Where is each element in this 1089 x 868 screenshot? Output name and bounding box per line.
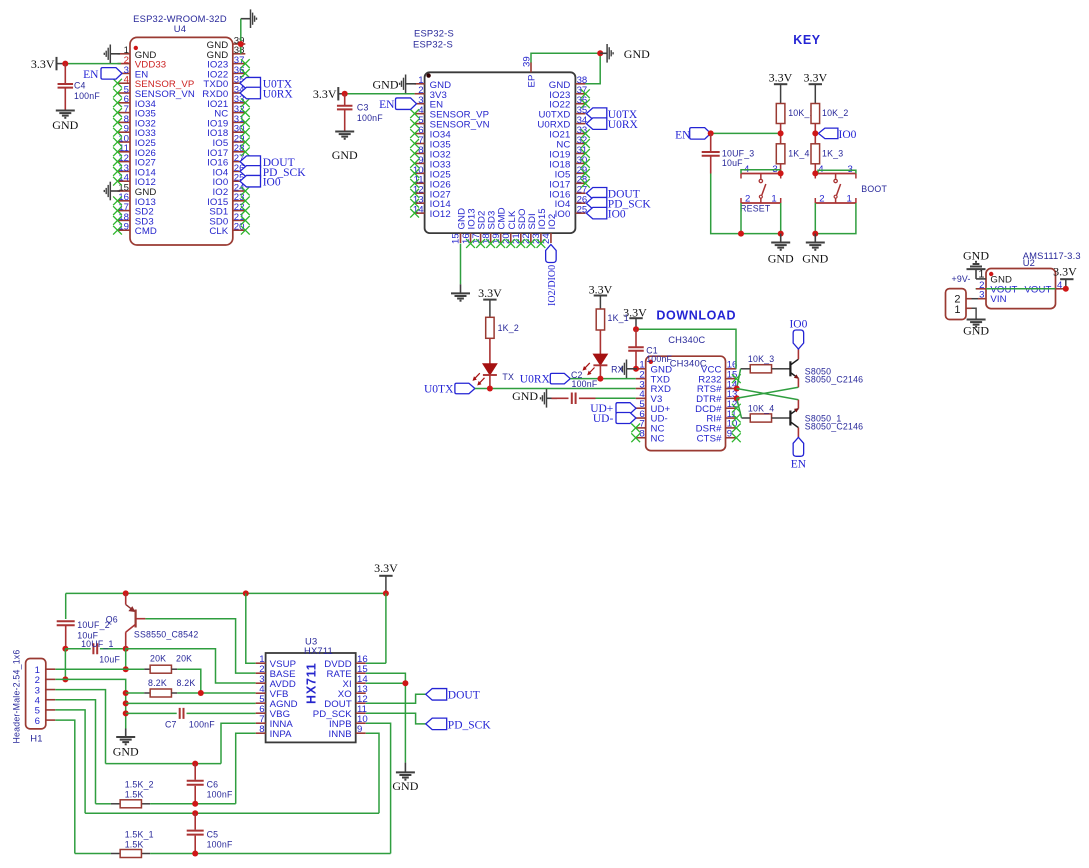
- junction RX LED: [597, 376, 603, 382]
- junction at U4 pin39: [238, 41, 244, 47]
- wire DOUT pin12 to flag: [366, 694, 426, 703]
- svg-text:GND: GND: [624, 47, 650, 61]
- resistor 1K_3: [811, 144, 843, 164]
- wire 3.3V to CH340C VCC pin16: [636, 329, 736, 369]
- svg-text:VOUT: VOUT: [1024, 284, 1051, 295]
- wire H1 pin1 to AVDD node: [55, 668, 125, 670]
- junction DTR#: [734, 395, 740, 401]
- capacitor C5 100nF: [187, 813, 233, 853]
- wire BOOT pin2 to GND: [814, 203, 816, 234]
- wire VSUP from rail to HX711 pin1: [246, 593, 256, 663]
- wire ESP32-S EP pin39 to GND tap: [531, 53, 600, 62]
- ground below left column: [113, 729, 139, 759]
- wire INPA pin8 to row B: [236, 733, 256, 804]
- net flag UD+ at CH340C pin5: [590, 403, 636, 416]
- net flag PD_SCK: [426, 718, 492, 731]
- wire VOUT net through U2: [976, 288, 1066, 290]
- LED RX: [583, 330, 624, 375]
- svg-text:20K: 20K: [150, 654, 166, 664]
- junction 10K_2/1K_3 node: [812, 130, 818, 136]
- resistor 10K_4: [742, 403, 782, 422]
- junction BOOT pin4: [812, 170, 818, 176]
- connector H1 Header-Male-2.54_1x6: [12, 650, 56, 744]
- wire H1 pin6 to 1.5K_1: [55, 720, 75, 853]
- capacitor C2 100nF: [552, 393, 596, 405]
- svg-text:3.3V: 3.3V: [803, 70, 827, 84]
- junction rail at VSUP: [243, 590, 249, 596]
- resistor 1K_2: [486, 317, 519, 338]
- net flag IO0 in KEY: [818, 128, 856, 141]
- net flag IO2/DIO0 at ESP32-S pin24: [546, 245, 558, 307]
- net flag U0RX at U4 pin34: [240, 87, 293, 100]
- resistor 10K_2: [811, 104, 848, 124]
- ground below C3: [332, 132, 358, 163]
- svg-text:EN: EN: [379, 99, 395, 111]
- svg-text:GND: GND: [392, 779, 418, 793]
- svg-text:CTS#: CTS#: [697, 433, 722, 444]
- wire row A (INNA net): [106, 763, 222, 765]
- svg-text:1.5K_1: 1.5K_1: [125, 830, 154, 840]
- capacitor C7 100nF: [126, 708, 256, 729]
- svg-text:EN: EN: [83, 69, 99, 81]
- svg-text:HX711: HX711: [304, 645, 333, 656]
- power 3.3V top of HX711 section: [374, 561, 398, 593]
- svg-text:10UF_3: 10UF_3: [722, 149, 755, 159]
- signal ground tap at C2: [512, 389, 557, 408]
- svg-text:IO0: IO0: [608, 209, 626, 221]
- svg-text:3.3V: 3.3V: [769, 70, 793, 84]
- junction EP net: [597, 50, 603, 56]
- no-connect marks CH340C pins 7,8,15,12,11,10,9: [631, 374, 740, 442]
- svg-text:INPA: INPA: [270, 729, 293, 740]
- wire C2 to CH340C V3 pin4: [596, 397, 636, 399]
- svg-text:PD_SCK: PD_SCK: [448, 719, 492, 731]
- svg-text:1.5K: 1.5K: [125, 840, 144, 850]
- net flag IO0 at U4 pin25: [240, 175, 281, 188]
- svg-text:10uF: 10uF: [722, 158, 743, 168]
- capacitor C1 100nF: [628, 329, 672, 369]
- power 3.3V above R 1K_2: [478, 286, 502, 317]
- net flag PD_SCK at ESP32-S pin26: [586, 197, 651, 210]
- svg-text:1: 1: [954, 304, 960, 316]
- svg-text:GND: GND: [52, 118, 78, 132]
- svg-text:UD-: UD-: [593, 413, 614, 425]
- wire +9V pin1 to GND: [966, 308, 976, 319]
- wire 1K_3 to switch BOOT: [814, 164, 816, 174]
- LED TX: [473, 338, 515, 385]
- transistor Q6 SS8550_C8542: [106, 593, 199, 648]
- resistor 20K: [126, 654, 193, 674]
- wire U0RX to CH340C TXD pin2: [570, 378, 635, 380]
- svg-text:100nF: 100nF: [74, 91, 100, 101]
- resistor 10K_1: [776, 104, 814, 124]
- power 3.3V at U2 VOUT: [1053, 264, 1077, 289]
- svg-text:IO2/DIO0: IO2/DIO0: [547, 265, 558, 306]
- connector +9V input: [946, 274, 971, 320]
- svg-text:S8050_C2146: S8050_C2146: [805, 422, 863, 432]
- pin stubs U2 VOUT: [976, 288, 986, 290]
- wire 3.3V rail: [66, 592, 386, 594]
- no-connect marks ESP32-S bottom pins 16-23: [466, 239, 545, 248]
- svg-text:3.3V: 3.3V: [374, 561, 398, 575]
- svg-text:IO0: IO0: [263, 177, 281, 189]
- junction rail at 3.3V: [383, 590, 389, 596]
- junction 10UF_1 right / AVDD node: [123, 646, 129, 652]
- svg-text:C3: C3: [357, 103, 369, 113]
- signal ground tap at U4 pin1: [104, 45, 120, 64]
- wire ESP32-S pin15 GND down: [460, 244, 462, 285]
- signal ground tap at ESP32-S pin1: [373, 75, 417, 94]
- ground below +9V connector: [963, 320, 989, 338]
- junction AVDD at 20K/H1 pin1: [123, 666, 129, 672]
- junction RESET pin3: [778, 170, 784, 176]
- svg-text:3.3V: 3.3V: [313, 87, 337, 101]
- svg-text:3.3V: 3.3V: [31, 57, 55, 71]
- no-connect marks ESP32-S right pins 37,36,33-28: [581, 89, 590, 187]
- svg-text:U0RX: U0RX: [263, 88, 294, 100]
- junction C1 top: [633, 326, 639, 332]
- svg-text:6: 6: [35, 716, 40, 727]
- svg-text:DOWNLOAD: DOWNLOAD: [656, 309, 736, 323]
- wire 10K_2 to 1K_3: [814, 123, 816, 143]
- power 3.3V above R 1K_1: [589, 283, 613, 309]
- svg-text:8: 8: [259, 724, 264, 735]
- junction GND column at 8.2K: [123, 690, 129, 696]
- junction C1 bottom at pin1 GND: [633, 366, 639, 372]
- junction 10K_1/1K_4 node: [778, 130, 784, 136]
- svg-text:RESET: RESET: [740, 204, 771, 214]
- svg-text:HX711: HX711: [305, 662, 319, 704]
- label C2: [571, 370, 598, 389]
- power 3.3V at U4 VDD33: [31, 57, 57, 71]
- ground below RATE/XI: [392, 763, 418, 793]
- svg-text:Header-Male-2.54_1x6: Header-Male-2.54_1x6: [12, 650, 22, 744]
- svg-text:BOOT: BOOT: [861, 184, 887, 194]
- resistor 10K_3: [741, 354, 782, 373]
- wire 3.3V to U4 pin2 VDD33: [57, 63, 66, 65]
- junction RESET rail left: [738, 231, 744, 237]
- svg-text:100nF: 100nF: [646, 354, 672, 364]
- svg-text:100nF: 100nF: [357, 113, 383, 123]
- svg-text:IO0: IO0: [839, 129, 857, 141]
- wire RESET pin2 to GND rail: [740, 203, 742, 234]
- capacitor 10UF_2 10uF: [57, 620, 110, 649]
- svg-text:GND: GND: [802, 252, 828, 266]
- junction row B at C6 bottom: [192, 801, 198, 807]
- svg-text:KEY: KEY: [793, 33, 821, 47]
- wire H1 pin2 GND to ground column: [55, 679, 125, 728]
- svg-text:SS8550_C8542: SS8550_C8542: [134, 630, 199, 640]
- junction at H1 pin2 row: [62, 676, 68, 682]
- svg-text:+9V-: +9V-: [952, 274, 971, 284]
- svg-text:25: 25: [577, 205, 588, 216]
- svg-text:C6: C6: [207, 779, 219, 789]
- signal ground tap at EP net: [600, 44, 650, 63]
- ground below ESP32-S pin15: [451, 284, 470, 300]
- junction XI/RATE: [402, 680, 408, 686]
- net flag EN at ESP32-S pin3: [379, 98, 416, 111]
- power 3.3V above R 10K_1: [769, 70, 793, 103]
- svg-text:8.2K: 8.2K: [177, 678, 196, 688]
- svg-text:EP: EP: [527, 75, 538, 88]
- junction at 3.3V / C3: [342, 91, 348, 97]
- capacitor 10UF_1 10uF: [65, 639, 125, 664]
- wire RTS# to Q2 emitter (cross): [737, 389, 799, 400]
- wire BOOT pin1 to GND rail: [815, 203, 856, 234]
- svg-text:1K_2: 1K_2: [498, 323, 519, 333]
- svg-text:IO0: IO0: [789, 318, 807, 330]
- svg-text:10K_3: 10K_3: [748, 354, 774, 364]
- wire 3.3V to ESP32-S pin2 3V3: [338, 93, 344, 95]
- svg-text:GND: GND: [113, 745, 139, 759]
- net flag PD_SCK at U4 pin26: [240, 166, 306, 179]
- svg-text:10uF: 10uF: [99, 654, 120, 664]
- junction rail at Q6 emitter: [123, 590, 129, 596]
- wire H1 pin5 to row C: [55, 710, 85, 813]
- net flag UD- at CH340C pin6: [593, 413, 636, 426]
- wire ESP32-S pin38 GND to EP net: [585, 53, 600, 84]
- switch BOOT: [815, 164, 887, 205]
- svg-text:1.5K: 1.5K: [125, 790, 144, 800]
- no-connect marks U4 right pins 37,36,33-28,24-20: [241, 59, 250, 234]
- svg-text:S8050_C2146: S8050_C2146: [805, 375, 863, 385]
- wire U0TX to CH340C RXD pin3: [475, 388, 636, 390]
- svg-text:10K_4: 10K_4: [748, 403, 774, 413]
- wire DTR# to Q1 emitter (cross): [737, 387, 799, 398]
- svg-text:INNB: INNB: [328, 729, 351, 740]
- junction TX LED: [487, 386, 493, 392]
- svg-text:U2: U2: [1023, 257, 1035, 268]
- svg-text:EN: EN: [791, 459, 807, 471]
- net flag IO0 at ESP32-S pin25: [586, 207, 626, 220]
- transistor Q? S8050 upper: [782, 349, 864, 387]
- svg-text:VIN: VIN: [990, 294, 1006, 305]
- svg-text:20K: 20K: [176, 654, 192, 664]
- ground below BOOT: [802, 234, 828, 266]
- net flag IO0 above Q1: [789, 318, 807, 349]
- wire H1 pin4 to 1.5K_2: [55, 700, 95, 804]
- svg-text:100nF: 100nF: [207, 789, 233, 799]
- svg-text:GND: GND: [963, 249, 989, 263]
- IC U2 AMS1117-3.3: [978, 250, 1080, 309]
- svg-text:10UF_1: 10UF_1: [81, 639, 114, 649]
- wire 10K_3 to RTS# pin14: [737, 369, 741, 389]
- svg-text:GND: GND: [332, 148, 358, 162]
- wire rail down to 10UF_2: [65, 593, 67, 619]
- svg-text:Q6: Q6: [106, 615, 118, 625]
- svg-text:1: 1: [847, 194, 852, 205]
- junction GND column at VBG: [123, 710, 129, 716]
- wire 20K to VFB node: [177, 669, 201, 693]
- svg-text:9: 9: [727, 429, 732, 440]
- svg-text:1: 1: [771, 194, 776, 205]
- svg-text:IO12: IO12: [430, 209, 451, 220]
- wire H1 pin3 to row A: [55, 690, 105, 764]
- switch RESET: [740, 164, 781, 214]
- IC CH340C: [636, 334, 738, 451]
- wire XI pin14 to GND net: [366, 682, 406, 684]
- wire 10UF_3 to GND rail of RESET: [711, 174, 781, 234]
- svg-text:U0RX: U0RX: [520, 373, 551, 385]
- svg-text:100nF: 100nF: [189, 719, 215, 729]
- svg-text:1K_1: 1K_1: [608, 313, 629, 323]
- capacitor C3 100nF: [337, 94, 383, 131]
- wire 10K_1 to 1K_4: [780, 123, 782, 143]
- svg-text:H1: H1: [30, 733, 42, 744]
- wire GND net 10UF column down to H1 pin2 row: [64, 649, 66, 680]
- capacitor C4 100nF: [58, 64, 101, 110]
- wire over RESET contacts: [741, 170, 780, 174]
- wire PD_SCK pin11 to flag: [366, 713, 426, 724]
- IC ESP32-S: [413, 28, 588, 245]
- svg-text:U0RX: U0RX: [608, 119, 639, 131]
- junction at 3.3V / C4: [62, 61, 68, 67]
- wire over BOOT contacts: [818, 170, 856, 173]
- junction row A at C6: [192, 761, 198, 767]
- svg-text:EN: EN: [675, 129, 691, 141]
- power 3.3V at ESP32-S 3V3: [313, 87, 338, 101]
- wire AVDD node to HX711 AVDD pin3: [126, 649, 256, 683]
- svg-text:C5: C5: [207, 829, 219, 839]
- svg-text:100nF: 100nF: [572, 379, 598, 389]
- junction 10UF_2 bottom / GND net: [62, 646, 68, 652]
- junction row C at C5 top: [192, 810, 198, 816]
- junction BOOT rail: [812, 231, 818, 237]
- net flag U0TX: [424, 383, 475, 395]
- resistor 8.2K: [126, 678, 196, 697]
- wire INNB pin9 to row C: [366, 733, 379, 813]
- ground above U2 pin1: [963, 249, 989, 279]
- svg-text:TX: TX: [502, 372, 514, 382]
- wire LED TX to U0TX net: [489, 375, 491, 389]
- power 3.3V at C1: [623, 306, 647, 330]
- net flag DOUT at U4 pin27: [240, 156, 295, 169]
- junction VFB: [198, 690, 204, 696]
- junction row D at C5 bottom: [192, 851, 198, 857]
- junction RTS#: [734, 386, 740, 392]
- no-connect marks ESP32-S left pins 4-14: [410, 109, 419, 217]
- svg-text:8.2K: 8.2K: [148, 678, 167, 688]
- svg-text:1K_4: 1K_4: [788, 148, 809, 158]
- wire INNA pin7 to row A: [221, 723, 256, 763]
- svg-text:9: 9: [357, 724, 362, 735]
- net flag U0TX at U4 pin35: [240, 77, 293, 90]
- svg-text:CLK: CLK: [209, 226, 228, 237]
- net flag U0TX at ESP32-S pin35: [586, 108, 638, 121]
- transistor Q? S8050_1 lower: [782, 400, 864, 438]
- svg-text:DOUT: DOUT: [448, 690, 480, 702]
- wire EN to RESET divider node: [711, 132, 781, 134]
- net flag EN in KEY: [675, 128, 711, 142]
- resistor 1.5K_1: [120, 830, 154, 858]
- svg-text:1K_3: 1K_3: [822, 148, 843, 158]
- wire 1K_4 to switch RESET: [780, 164, 782, 174]
- svg-text:NC: NC: [651, 433, 665, 444]
- wire row B (INPA net): [96, 803, 236, 805]
- svg-text:RX: RX: [611, 365, 624, 375]
- wire U4 pins 39,38 GND to tap: [240, 19, 242, 54]
- wire AVDD column down to 20K row: [125, 649, 127, 670]
- no-connect marks U4 left pins 4-14,16-19: [113, 79, 122, 235]
- ground below C4: [52, 111, 78, 133]
- svg-text:3.3V: 3.3V: [1053, 264, 1077, 278]
- svg-text:2: 2: [819, 194, 824, 205]
- net flag U0RX at ESP32-S pin34: [586, 118, 638, 131]
- signal ground tap top-right of U4: [241, 9, 257, 28]
- wire row D (INPB net): [75, 853, 391, 855]
- IC U4 ESP32-WROOM-32D: [118, 13, 246, 245]
- svg-text:C7: C7: [165, 719, 177, 729]
- wire +9V pin2 to U2 VIN pin3: [966, 298, 986, 300]
- net flag DOUT at ESP32-S pin27: [586, 188, 639, 201]
- svg-text:100nF: 100nF: [207, 839, 233, 849]
- net flag U0RX: [520, 373, 571, 385]
- svg-text:CH340C: CH340C: [668, 334, 705, 345]
- wire RESET pin1 to GND rail: [780, 203, 782, 234]
- svg-text:GND: GND: [512, 389, 538, 403]
- IC U3 HX711: [256, 636, 369, 743]
- svg-text:GND: GND: [768, 252, 794, 266]
- wire 10K_4 to DTR# pin13: [737, 398, 742, 418]
- junction U2 pin4: [1063, 286, 1069, 292]
- signal ground tap at CH340C pin1: [621, 360, 638, 379]
- svg-text:GND: GND: [963, 324, 989, 338]
- svg-text:U0TX: U0TX: [424, 384, 454, 396]
- wire INPB pin10 to row D: [366, 723, 391, 853]
- junction EN node: [708, 130, 714, 136]
- svg-text:ESP32-S: ESP32-S: [413, 39, 453, 50]
- svg-text:IO2: IO2: [547, 214, 558, 230]
- svg-text:ESP32-S: ESP32-S: [414, 28, 454, 39]
- resistor 1.5K_2: [120, 780, 154, 808]
- net flag DOUT: [426, 689, 480, 702]
- svg-text:GND: GND: [373, 77, 399, 91]
- wire DVDD pin16 to 3.3V rail: [366, 593, 386, 663]
- resistor 1K_1: [596, 309, 629, 330]
- wire RATE pin15 to GND: [366, 673, 406, 762]
- svg-text:1.5K_2: 1.5K_2: [125, 780, 154, 790]
- svg-text:U4: U4: [174, 23, 186, 34]
- capacitor C6 100nF: [187, 764, 233, 804]
- net flag EN below Q2: [791, 437, 807, 470]
- junction RESET rail right: [778, 231, 784, 237]
- capacitor 10UF_3 10uF: [702, 133, 755, 173]
- svg-text:C4: C4: [74, 81, 86, 91]
- wire row C (INNB net): [85, 812, 379, 814]
- signal ground tap at U4 pin15: [104, 182, 120, 201]
- ground below RESET: [768, 234, 794, 266]
- wire 8.2K to VFB pin4: [177, 692, 255, 694]
- wire LED RX to U0RX net: [599, 365, 601, 378]
- net flag EN at U4 pin3: [83, 68, 122, 81]
- power 3.3V above R 10K_2: [803, 70, 827, 103]
- wire AGND pin5 to GND column: [126, 702, 256, 704]
- svg-text:10K_2: 10K_2: [822, 108, 848, 118]
- wire Q6 base to HX711 BASE pin2: [145, 619, 255, 673]
- svg-text:CMD: CMD: [135, 226, 157, 237]
- resistor 1K_4: [776, 144, 809, 164]
- svg-text:3.3V: 3.3V: [478, 286, 502, 300]
- junction GND column at AGND: [123, 700, 129, 706]
